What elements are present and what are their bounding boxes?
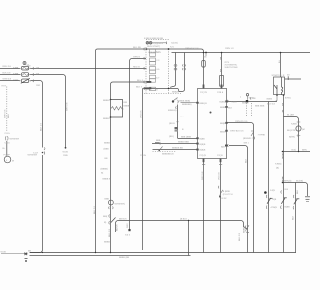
wire box bottom pin1: [203, 159, 205, 253]
svg-text:(BRAKE OK: (BRAKE OK: [243, 137, 255, 140]
svg-text:ORG-BLK 0.5: ORG-BLK 0.5: [230, 129, 244, 132]
pin box 9: [150, 87, 156, 90]
U1 interior dot: [210, 112, 212, 114]
svg-text:SW 1: SW 1: [244, 142, 250, 145]
svg-text:BBBB): BBBB): [124, 104, 131, 107]
svg-text:B(BB: B(BB: [200, 137, 206, 140]
fuse F2: [20, 73, 34, 77]
wire y182: [283, 183, 308, 197]
U1 pin marks right: [225, 100, 227, 102]
lamp L2: [149, 42, 152, 45]
node J6b: [205, 52, 207, 54]
svg-text:BBB: BBB: [156, 139, 161, 142]
svg-text:STARTER, R: STARTER, R: [272, 74, 285, 77]
relay K1 box top right: [274, 77, 285, 95]
x184 bracket marks: [174, 64, 177, 66]
svg-text:BBB(B: BBB(B: [172, 91, 179, 94]
wires into U1 left lower: [152, 143, 198, 145]
wire D col: [283, 95, 285, 253]
pin box 2: [150, 53, 156, 56]
dashed pair below J8: [246, 103, 248, 116]
wire x175.5 drop: [170, 53, 176, 88]
wire relay side: [285, 78, 302, 80]
fuse F1: [20, 66, 34, 70]
svg-text:(BB (: (BB (: [169, 135, 174, 138]
node J15 terminal dot x129: [128, 229, 130, 231]
svg-text:A1BB: A1BB: [231, 100, 237, 103]
svg-text:SHUTDOWN: SHUTDOWN: [225, 66, 238, 69]
U1 top/bottom pin stubs: [203, 85, 205, 89]
svg-text:BBBB (BB: BBBB (BB: [119, 256, 130, 259]
svg-text:BBBB B: BBBB B: [103, 177, 111, 180]
svg-text:WASHER: WASHER: [10, 138, 20, 141]
wire y220 cross: [116, 221, 248, 233]
wire row3 to corner: [31, 81, 43, 148]
pin box 3: [150, 58, 156, 61]
svg-text:GRY: GRY: [126, 223, 129, 228]
motor M1 circle: [4, 156, 11, 163]
svg-text:A2BB: A2BB: [291, 122, 297, 125]
svg-text:BLK 0.8: BLK 0.8: [238, 232, 241, 241]
node J2: [168, 48, 170, 50]
pin box 6: [150, 70, 156, 73]
switch marks x220: [218, 186, 222, 198]
wire row2 to corner: [31, 75, 66, 148]
connector cluster left of U1: [155, 142, 163, 151]
svg-text:AUTOMATIC: AUTOMATIC: [225, 64, 238, 67]
svg-text:- - -: - - -: [180, 116, 184, 118]
svg-text:G100: G100: [1, 250, 7, 253]
svg-text:B(B: B(B: [221, 145, 225, 148]
svg-text:M: M: [12, 159, 14, 162]
wire top right drop: [280, 53, 282, 78]
svg-text:GRN-BLK 0.8: GRN-BLK 0.8: [185, 47, 199, 50]
wire y82 from x111: [111, 82, 147, 100]
svg-text:BBBB BBB(: BBBB BBB(: [179, 99, 191, 102]
svg-text:A (B)(RUN: A (B)(RUN: [153, 42, 164, 45]
svg-text:C2( B: C2( B: [217, 154, 223, 157]
wire y58 from x129: [130, 59, 147, 231]
svg-text:BLK 0.8: BLK 0.8: [108, 228, 111, 237]
svg-text:RUN START): RUN START): [147, 45, 160, 48]
B col switch at y131: [251, 131, 254, 140]
svg-text:BLK 0.8: BLK 0.8: [3, 71, 12, 74]
svg-text:HOT: HOT: [2, 85, 7, 88]
wire ground bus upper: [30, 252, 297, 254]
wire row1 left feed: [0, 68, 20, 70]
wire main bus y52.5: [172, 52, 311, 54]
node J12: [188, 220, 189, 221]
wire row1 to connector: [31, 68, 147, 70]
svg-text:BLK: BLK: [244, 158, 247, 163]
svg-text:BBBB: BBBB: [104, 141, 110, 144]
svg-text:B(B)B: B(B)B: [200, 149, 206, 152]
D col top marks y103-113: [281, 103, 284, 112]
splice circle x110: [109, 200, 114, 205]
pin box 4: [150, 62, 156, 65]
wire x184 drop: [178, 53, 184, 92]
svg-text:GTS: GTS: [225, 61, 230, 64]
svg-text:G105: G105: [63, 151, 69, 154]
svg-text:BLK 2.0: BLK 2.0: [93, 205, 96, 214]
wire C col: [268, 102, 270, 253]
C column switch SW1: [266, 195, 272, 209]
splice end x65: [65, 147, 67, 149]
wire ground bus lower: [30, 255, 191, 257]
svg-text:C207: C207: [13, 79, 19, 82]
svg-text:GRN B: GRN B: [133, 55, 140, 58]
svg-text:C206: C206: [13, 73, 19, 76]
svg-text:S1I 4: S1I 4: [125, 234, 131, 237]
svg-text:C115: C115: [5, 132, 11, 135]
node J6: [221, 52, 223, 54]
connector break x42: [42, 148, 45, 155]
F column capacitor end: [305, 197, 310, 202]
svg-text:BLK: BLK: [292, 215, 295, 220]
svg-text:BLK 1.0: BLK 1.0: [39, 122, 42, 131]
svg-text:10A: 10A: [36, 73, 40, 76]
svg-text:B(B: B(B: [273, 198, 277, 201]
node J13: [110, 99, 112, 101]
pin box 8: [150, 79, 156, 82]
svg-text:A7B(B: A7B(B: [271, 206, 278, 209]
svg-text:B(BB: B(BB: [285, 206, 291, 209]
svg-text:BBB B: BBB B: [242, 102, 249, 105]
wire ground left: [1, 253, 24, 255]
svg-text:(M: (M: [302, 128, 305, 131]
wire x188 gnd drop: [188, 221, 190, 256]
node J10: [298, 151, 299, 152]
svg-text:PUMP: PUMP: [4, 153, 11, 156]
D column switch SW2: [281, 191, 287, 209]
switch SW4 x110 bottom: [109, 215, 116, 225]
svg-text:86I85: 86I85: [267, 97, 273, 100]
node J5: [203, 52, 205, 54]
svg-text:B2BB.B): B2BB.B): [168, 109, 177, 112]
svg-text:BBB BBB: BBB BBB: [255, 105, 265, 108]
svg-text:B (BRK: B (BRK: [223, 190, 231, 193]
svg-text:B(B)B: B(B)B: [200, 143, 206, 146]
svg-text:C2B 8: C2B 8: [217, 91, 224, 94]
pin box 5: [150, 67, 156, 70]
svg-text:BB(B: BB(B: [220, 122, 226, 125]
U1 pin marks left: [196, 102, 198, 104]
svg-text:A7(B: A7(B: [270, 189, 275, 192]
svg-text:BBBB): BBBB): [220, 106, 227, 109]
wire pin x221: [221, 53, 223, 89]
node J16 splice dot C col: [264, 191, 267, 194]
svg-text:7 PARK: 7 PARK: [258, 134, 266, 137]
svg-text:BLK 0.8: BLK 0.8: [267, 103, 276, 106]
node J8 splice square: [246, 100, 248, 102]
svg-text:B BB B BBB BB BB: B BB B BBB BB BB: [144, 37, 164, 40]
svg-text:BL (BR: BL (BR: [287, 114, 294, 117]
svg-text:BLK-RD: BLK-RD: [133, 46, 141, 49]
svg-text:GRY 0.5: GRY 0.5: [4, 109, 7, 118]
svg-text:C117: C117: [33, 151, 39, 154]
D col bracket y176-181: [281, 177, 284, 182]
resistor R2 on pin 221: [220, 76, 224, 87]
wire D to M branch: [284, 117, 299, 152]
node J11: [282, 182, 284, 184]
D col connector marks y153-158: [281, 154, 284, 159]
splice S1 circle: [23, 62, 26, 65]
svg-text:BB/: BB/: [124, 101, 128, 104]
svg-text:B.B(: B.B(: [292, 149, 297, 152]
svg-text:C205: C205: [13, 67, 19, 70]
svg-text:BLK: BLK: [296, 189, 299, 194]
wire row3 left feed: [0, 80, 20, 82]
splice S2 symbol above J8: [246, 94, 248, 96]
fuse F4 on relay side wire: [287, 76, 289, 80]
svg-text:BB BLK: BB BLK: [119, 217, 127, 220]
wire x142 drop: [142, 89, 144, 251]
pin box 1: [150, 49, 156, 52]
svg-text:(B BLK: (B BLK: [180, 217, 187, 220]
wire row2 left feed: [0, 74, 20, 76]
breaker CB1: [20, 78, 34, 83]
wire x42 lower: [30, 155, 43, 253]
svg-text:S202: S202: [249, 97, 255, 100]
svg-text:BRK(B): BRK(B): [284, 180, 292, 183]
relay K1 internals: [274, 77, 283, 95]
svg-text:(CLUTCH: (CLUTCH: [223, 193, 233, 196]
svg-text:BBBB: BBBB: [104, 240, 110, 243]
lamp L1: [146, 42, 149, 45]
M2 line marks: [297, 135, 300, 137]
node J1: [146, 48, 148, 50]
svg-text:GRN 1.0: GRN 1.0: [225, 47, 234, 50]
svg-text:BBBB B: BBBB B: [103, 117, 111, 120]
svg-text:(BBBB): (BBBB): [101, 167, 109, 170]
svg-text:BBB(.B: BBB(.B: [200, 102, 208, 105]
wire lamp link: [152, 42, 166, 44]
svg-text:RED B: RED B: [133, 65, 140, 68]
wire B entry: [227, 123, 254, 253]
svg-text:BLI(STRT: BLI(STRT: [287, 129, 297, 132]
svg-text:BBBB: BBBB: [243, 227, 246, 233]
ground-splice dashed col left: [6, 87, 8, 132]
svg-text:(BB B: (BB B: [169, 122, 175, 125]
wire box right y101: [227, 101, 278, 103]
pin bars rows 82/88: [146, 81, 151, 83]
svg-text:C2( 7B: C2( 7B: [200, 91, 207, 94]
svg-text:BLK: BLK: [228, 107, 233, 110]
node J7: [280, 52, 282, 54]
svg-text:GRY 0.8: GRY 0.8: [201, 171, 204, 180]
E column switch SW3: [293, 195, 299, 209]
svg-text:BBBB B: BBBB B: [103, 99, 111, 102]
resistor R1 squiggle: [111, 107, 124, 111]
wire x111 resistor col: [110, 100, 112, 254]
svg-text:BBBBBB (B: BBBBBB (B: [162, 152, 174, 155]
svg-text:B(BB): B(BB): [220, 100, 226, 103]
svg-text:GRN 0.8: GRN 0.8: [3, 78, 12, 81]
svg-text:B(RK): B(RK): [289, 135, 295, 138]
switch SW-A col (A column connector): [245, 225, 249, 232]
svg-text:VIO 0.8: VIO 0.8: [217, 172, 220, 180]
connector C100 dashed box: [145, 47, 147, 94]
wire A entry: [229, 146, 248, 253]
svg-text:C2 05: C2 05: [140, 154, 147, 157]
svg-text:C116: C116: [5, 142, 11, 145]
svg-text:BBB (BBB: BBB (BBB: [181, 135, 192, 138]
svg-text:BBI(: BBI(: [103, 215, 108, 218]
wire y151: [283, 151, 311, 153]
circle splice x173: [172, 100, 174, 102]
module U1 control unit box: [198, 89, 227, 159]
motor M2 on 299 line: [296, 126, 301, 131]
wire battery riser x95: [96, 49, 204, 253]
svg-text:B): B): [104, 221, 106, 224]
connector marks x110 y206-211: [109, 207, 113, 210]
svg-text:WASHER(: WASHER(: [115, 202, 126, 205]
wire E col: [295, 183, 297, 253]
svg-text:GRY 0.8: GRY 0.8: [66, 102, 69, 111]
svg-text:BLK 4: BLK 4: [136, 86, 143, 89]
svg-text:BBBBB BB: BBBBB BB: [172, 146, 183, 149]
svg-text:BLU A: BLU A: [137, 79, 144, 82]
svg-text:C2( (B: C2( (B: [200, 154, 207, 157]
svg-text:BBB: BBB: [105, 197, 110, 200]
node J17 bus dots: [110, 252, 111, 253]
node J9: [282, 151, 284, 153]
svg-text:BRN: BRN: [302, 149, 307, 152]
svg-text:B:XX: B:XX: [222, 197, 228, 200]
svg-text:B(: B(: [101, 171, 103, 174]
svg-text:BL(BB): BL(BB): [296, 180, 303, 183]
svg-text:BLK: BLK: [7, 113, 10, 118]
svg-text:GRN-RD 0.5: GRN-RD 0.5: [235, 120, 248, 123]
pin221 connector marks: [219, 57, 222, 71]
node J3: [146, 88, 148, 90]
wire box bottom pin2: [220, 159, 222, 253]
svg-text:C(100): C(100): [171, 42, 178, 45]
svg-text:VIO 0.5: VIO 0.5: [140, 110, 143, 118]
svg-text:15A: 15A: [36, 66, 40, 69]
node J4: [168, 88, 170, 90]
svg-text:(B): (B): [276, 166, 279, 169]
svg-text:BB2B: BB2B: [220, 130, 226, 133]
svg-text:GND: GND: [63, 154, 68, 157]
svg-text:BLK25: BLK25: [115, 224, 118, 231]
svg-text:(BBB: (BBB: [104, 147, 110, 150]
svg-text:BBBBBB): BBBBBB): [182, 103, 192, 106]
svg-text:87I30,: 87I30,: [285, 96, 291, 99]
fuse F3 in pin203: [202, 60, 206, 67]
B pin mark: [227, 100, 230, 103]
svg-text:BBBB BBB: BBBB BBB: [178, 141, 189, 144]
relay K1 bottom pin dots: [276, 94, 278, 96]
svg-text:B:B: B:B: [285, 188, 289, 191]
node J14: [110, 116, 112, 118]
left col connector at y136: [6, 136, 9, 156]
ground G1 symbol: [24, 253, 28, 262]
wire y86 to dashed box: [143, 88, 179, 90]
pin brackets on C100 left edge: [143, 48, 146, 54]
A col pin bracket: [225, 145, 227, 147]
svg-text:RED 0.8: RED 0.8: [3, 65, 12, 68]
x177 col: [175, 105, 198, 139]
pin box 7: [150, 75, 156, 78]
resistor R1 parallel loop: [111, 100, 123, 118]
svg-text:A7BB): A7BB): [275, 162, 282, 165]
